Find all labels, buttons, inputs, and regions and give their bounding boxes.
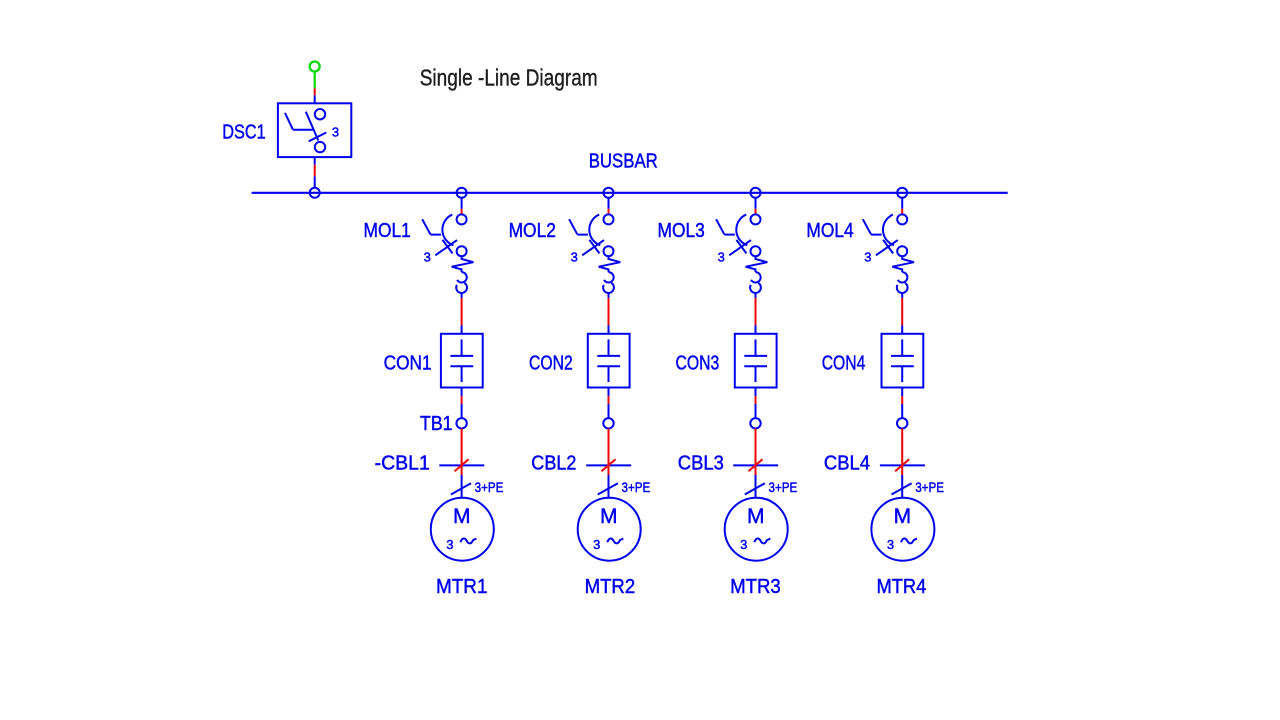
wire DSC1 out (red) <box>314 165 316 177</box>
wire terminal to CBL1 (red) <box>461 429 463 476</box>
svg-text:CON1: CON1 <box>384 353 432 375</box>
svg-text:CON3: CON3 <box>676 353 720 375</box>
cable CBL4 <box>880 459 925 471</box>
svg-text:3+PE: 3+PE <box>915 479 944 495</box>
svg-text:BUSBAR: BUSBAR <box>589 150 658 172</box>
conductor-count slash 3+PE (feeder 4) <box>892 483 912 494</box>
wire busbar to MOL4 <box>901 198 903 209</box>
svg-text:3: 3 <box>571 250 578 265</box>
svg-text:M: M <box>600 505 618 528</box>
conductor-count slash 3+PE (feeder 2) <box>598 483 618 494</box>
svg-text:3+PE: 3+PE <box>475 479 504 495</box>
svg-text:CBL3: CBL3 <box>678 452 724 474</box>
wire MOL1 to CON1 (red) <box>461 298 463 325</box>
cable CBL3 <box>733 459 778 471</box>
wire supply drop (red) <box>314 88 316 95</box>
svg-text:CBL4: CBL4 <box>824 452 870 474</box>
svg-text:M: M <box>894 505 912 528</box>
svg-text:M: M <box>453 505 471 528</box>
svg-text:3: 3 <box>740 537 747 552</box>
wire to terminal <box>901 404 903 418</box>
svg-text:CON2: CON2 <box>529 353 573 375</box>
motor MTR3 <box>725 498 788 561</box>
svg-text:-CBL1: -CBL1 <box>375 452 430 474</box>
cable CBL1 <box>439 459 484 471</box>
svg-text:Single -Line Diagram: Single -Line Diagram <box>420 64 598 90</box>
wire into CON3 <box>755 325 757 334</box>
terminal (feeder 4) <box>897 418 907 428</box>
svg-text:M: M <box>747 505 765 528</box>
svg-text:MOL3: MOL3 <box>658 220 705 242</box>
wire terminal to CBL3 (red) <box>755 429 757 476</box>
wire CBL1 to MTR1 <box>461 475 463 498</box>
svg-text:CON4: CON4 <box>822 353 866 375</box>
svg-text:3: 3 <box>446 537 453 552</box>
wire to busbar <box>314 176 316 188</box>
conductor-count slash 3+PE (feeder 1) <box>451 483 471 494</box>
motor protection breaker MOL3 <box>716 214 767 298</box>
wire MOL2 to CON2 (red) <box>608 298 610 325</box>
wire busbar to MOL1 <box>461 198 463 209</box>
terminal (feeder 2) <box>603 418 613 428</box>
busbar <box>252 192 1008 194</box>
svg-text:TB1: TB1 <box>420 413 453 435</box>
terminal TB1 <box>456 418 466 428</box>
svg-text:DSC1: DSC1 <box>222 122 265 144</box>
contactor CON1 <box>441 334 483 388</box>
svg-text:3: 3 <box>864 250 871 265</box>
wire DSC1 out <box>314 157 316 165</box>
node busbar tap 4 <box>897 188 907 198</box>
wire CON2 out (red) <box>608 396 610 404</box>
svg-text:3+PE: 3+PE <box>769 479 798 495</box>
node busbar tap 1 <box>457 188 467 198</box>
wire CBL3 to MTR3 <box>755 475 757 498</box>
wire CON3 out (red) <box>755 396 757 404</box>
svg-text:3+PE: 3+PE <box>622 479 651 495</box>
wire busbar to MOL2 (red) <box>608 209 610 214</box>
wire CON2 out <box>608 388 610 397</box>
contactor CON3 <box>735 334 777 388</box>
svg-text:3: 3 <box>718 250 725 265</box>
wire terminal to CBL2 (red) <box>608 429 610 476</box>
svg-text:MOL4: MOL4 <box>806 220 853 242</box>
cable CBL2 <box>586 459 631 471</box>
wire MOL4 to CON4 (red) <box>901 298 903 325</box>
motor MTR1 <box>431 498 494 561</box>
svg-text:MOL1: MOL1 <box>364 220 411 242</box>
conductor-count slash 3+PE (feeder 3) <box>745 483 765 494</box>
disconnector DSC1 <box>278 103 351 157</box>
wire into CON1 <box>461 325 463 334</box>
svg-text:3: 3 <box>887 537 894 552</box>
svg-text:CBL2: CBL2 <box>531 452 576 474</box>
node busbar tap 3 <box>751 188 761 198</box>
wire CBL2 to MTR2 <box>608 475 610 498</box>
wire busbar to MOL3 <box>755 198 757 209</box>
svg-text:MTR3: MTR3 <box>730 576 781 598</box>
wire terminal to CBL4 (red) <box>901 429 903 476</box>
wire CON1 out (red) <box>461 396 463 404</box>
motor protection breaker MOL4 <box>863 214 914 298</box>
svg-text:3: 3 <box>332 124 339 139</box>
contactor CON2 <box>588 334 630 388</box>
wire CBL4 to MTR4 <box>901 475 903 498</box>
contactor CON4 <box>882 334 924 388</box>
svg-text:MTR2: MTR2 <box>585 576 636 598</box>
motor MTR4 <box>871 498 934 561</box>
motor protection breaker MOL1 <box>422 214 473 298</box>
wire CON3 out <box>755 388 757 397</box>
terminal (feeder 3) <box>750 418 760 428</box>
wire busbar to MOL2 <box>608 198 610 209</box>
wire to terminal <box>461 404 463 418</box>
wire into CON4 <box>901 325 903 334</box>
busbar node (DSC1 feed) <box>310 188 320 198</box>
wire CON4 out (red) <box>901 396 903 404</box>
wire into DSC1 <box>314 95 316 103</box>
svg-text:3: 3 <box>593 537 600 552</box>
svg-text:MTR4: MTR4 <box>877 576 927 598</box>
wire to terminal <box>608 404 610 418</box>
wire MOL3 to CON3 (red) <box>755 298 757 325</box>
svg-text:MOL2: MOL2 <box>509 220 556 242</box>
wire busbar to MOL3 (red) <box>755 209 757 214</box>
svg-text:3: 3 <box>424 250 431 265</box>
motor protection breaker MOL2 <box>569 214 620 298</box>
motor MTR2 <box>578 498 641 561</box>
wire CON4 out <box>901 388 903 397</box>
wire CON1 out <box>461 388 463 397</box>
wire to terminal <box>755 404 757 418</box>
wire into CON2 <box>608 325 610 334</box>
wire busbar to MOL4 (red) <box>901 209 903 214</box>
node busbar tap 2 <box>604 188 614 198</box>
wire supply drop (green) <box>314 72 316 89</box>
incoming supply terminal <box>310 62 320 72</box>
wire busbar to MOL1 (red) <box>461 209 463 214</box>
svg-text:MTR1: MTR1 <box>436 576 488 598</box>
